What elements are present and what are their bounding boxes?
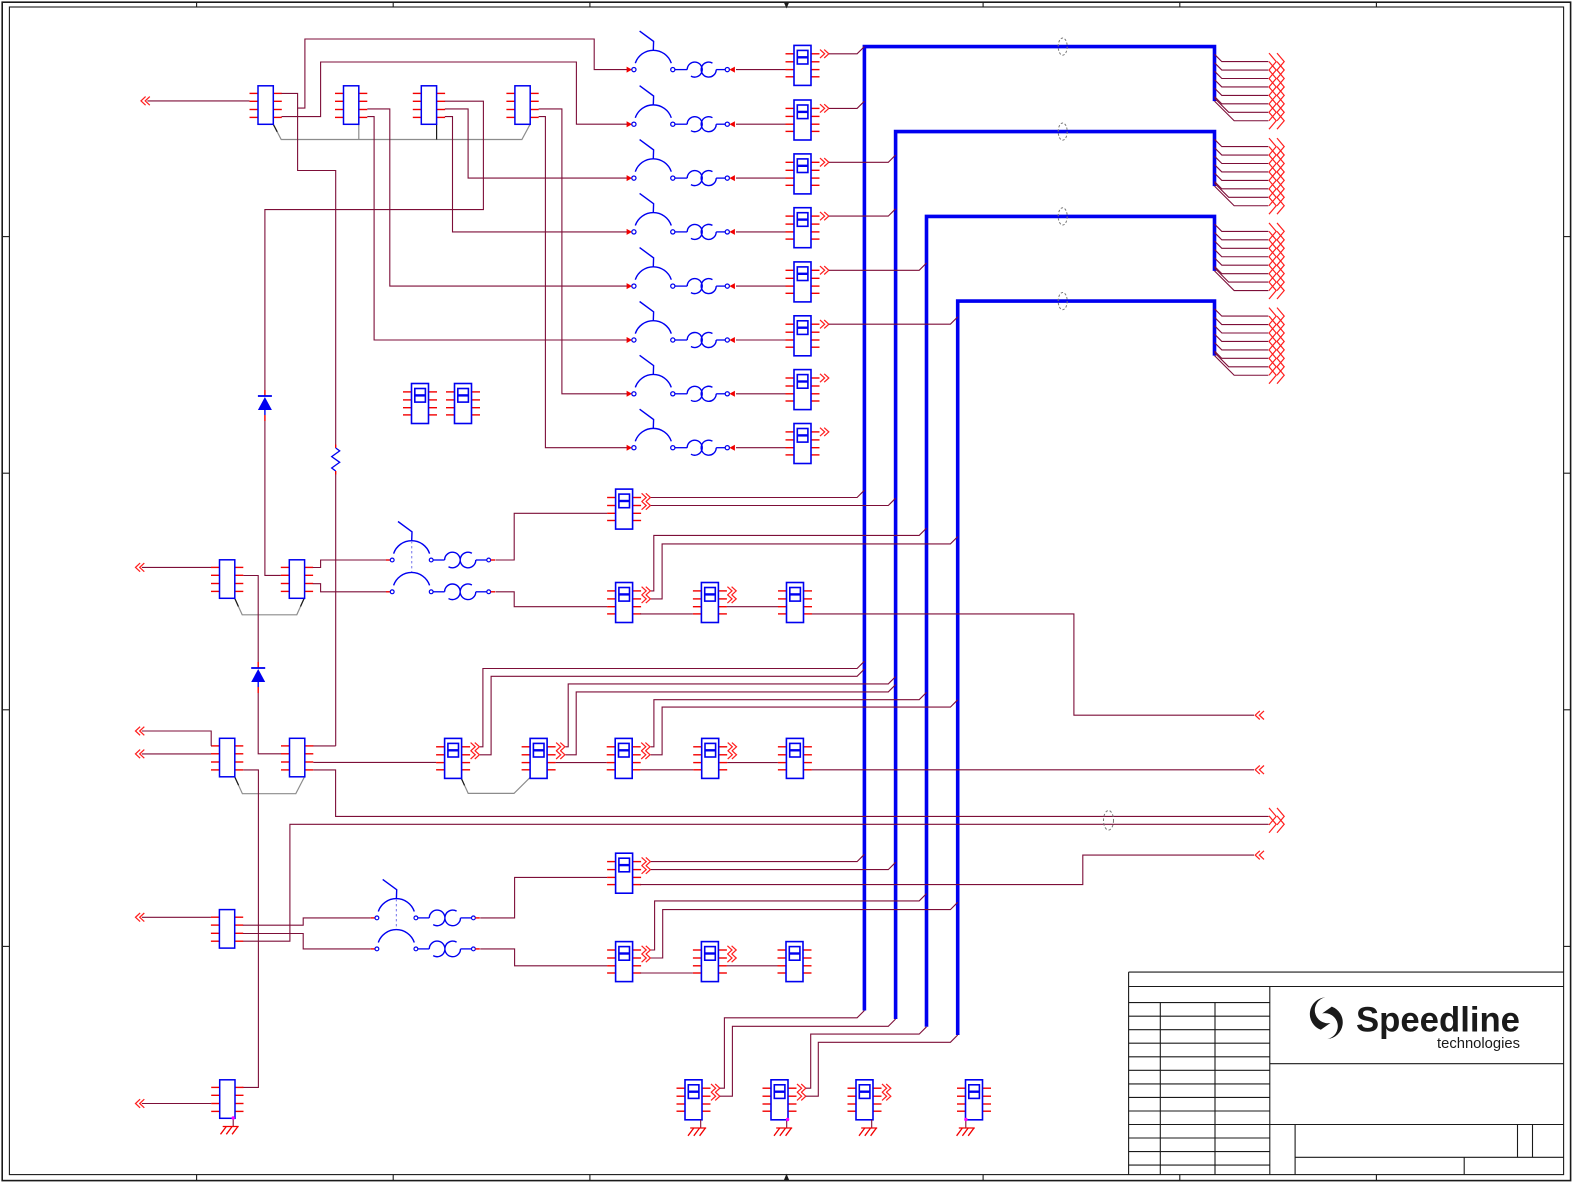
bus B2 branch wire 4 — [1215, 165, 1269, 172]
wire — [313, 745, 336, 747]
wire — [480, 877, 607, 918]
wire to bus — [480, 669, 864, 755]
connector J3 — [413, 86, 445, 125]
transformer T9a — [433, 552, 495, 568]
cable harness top — [273, 124, 530, 139]
wire — [640, 972, 693, 974]
bus B4 branch wire 1 — [1215, 309, 1269, 316]
wire node T1 — [298, 108, 336, 444]
off-page chevron K20.1 — [642, 857, 651, 865]
off-page connector to J1 — [141, 97, 150, 106]
ground G3 — [859, 1120, 877, 1136]
wire to bus — [829, 101, 864, 108]
diode D2 — [251, 662, 265, 693]
wire — [313, 584, 386, 592]
relay box K21 — [607, 942, 641, 982]
wire to bus — [829, 47, 864, 54]
bus B1 branch wire 6 — [1215, 97, 1269, 104]
wire — [335, 475, 337, 746]
relay box K19 — [778, 738, 812, 778]
circuit breaker CB3 — [627, 140, 688, 182]
wire — [496, 513, 608, 560]
power bus B4 — [958, 301, 1215, 1035]
off-page connector B1.7 — [1269, 104, 1284, 121]
wire — [313, 770, 1268, 817]
off-page connector B2.2 — [1269, 147, 1284, 164]
wire bus B1 to K24 — [720, 1011, 865, 1089]
wire — [640, 613, 693, 615]
relay box K3 — [786, 154, 820, 194]
connector J6 — [281, 560, 313, 599]
cable marker ellipse — [1104, 811, 1114, 831]
off-page connector B1.3 — [1269, 70, 1284, 87]
bus B2 branch wire 7 — [1215, 183, 1269, 197]
circuit breaker CB7 — [627, 355, 688, 397]
Speedline logo — [1310, 997, 1520, 1052]
off-page connector B1.2 — [1269, 62, 1284, 79]
off-page connector to J7.1 — [136, 727, 145, 736]
wire — [736, 339, 786, 341]
circuit breaker CB6 — [627, 302, 688, 344]
transformer T10a — [418, 910, 480, 926]
circuit breaker CB5 — [627, 248, 688, 290]
off-page connector B3.6 — [1269, 265, 1284, 282]
wire to bus — [829, 155, 896, 162]
ground G0 — [221, 1118, 239, 1134]
relay box K20 — [607, 853, 641, 893]
off-page connector B1.8 — [1269, 112, 1284, 129]
off-page chevron K16.1 — [556, 743, 565, 751]
off-page chevron K11.1 — [642, 493, 651, 501]
off-page connector B4.3 — [1269, 325, 1284, 342]
off-page chevron K6 — [820, 320, 829, 328]
off-page connector B2.4 — [1269, 164, 1284, 181]
power bus B2 — [896, 132, 1215, 1019]
off-page connector B2.8 — [1269, 197, 1284, 214]
bus B2 branch wire 8 — [1215, 186, 1269, 206]
off-page connector right 1 — [1255, 711, 1264, 720]
off-page chevron K26.1 — [882, 1084, 891, 1092]
bus B2 branch wire 3 — [1215, 156, 1269, 163]
off-page connector to J7.2 — [136, 750, 145, 759]
off-page connector B3.4 — [1269, 248, 1284, 265]
bus B1 branch wire 4 — [1215, 80, 1269, 87]
wire bus B3 to K25 — [806, 1027, 927, 1088]
wire — [736, 231, 786, 233]
off-page connector pair 1 — [1269, 808, 1284, 825]
relay box K14 — [778, 583, 812, 623]
svg-text:Speedline: Speedline — [1356, 1000, 1520, 1040]
wire — [556, 762, 607, 764]
off-page connector B2.5 — [1269, 172, 1284, 189]
bus B4 branch wire 2 — [1215, 317, 1269, 324]
transformer T9b — [433, 584, 495, 600]
off-page chevron K12.2 — [642, 595, 651, 603]
off-page connector B1.6 — [1269, 95, 1284, 112]
wire — [727, 965, 778, 967]
wire — [539, 109, 628, 394]
relay box K22 — [693, 942, 727, 982]
wire — [367, 117, 628, 340]
circuit breaker CB8 — [627, 409, 688, 451]
wire — [313, 761, 436, 763]
off-page connector to J5 — [136, 563, 145, 572]
off-page connector B1.5 — [1269, 87, 1284, 104]
wire — [142, 1103, 211, 1105]
wire — [258, 693, 281, 754]
power bus B1 — [864, 47, 1214, 1011]
bus B3 branch wire 8 — [1215, 271, 1269, 291]
off-page connector B4.6 — [1269, 350, 1284, 367]
relay box K17 — [607, 738, 641, 778]
junction dot — [786, 1118, 789, 1121]
wire — [736, 393, 786, 395]
current transformer CB2T — [687, 117, 735, 132]
breaker link — [395, 899, 397, 930]
off-page connector B2.3 — [1269, 155, 1284, 172]
wire — [496, 592, 608, 607]
bus B4 branch wire 7 — [1215, 353, 1269, 367]
off-page connector B2.7 — [1269, 189, 1284, 206]
relay box K24 — [677, 1080, 711, 1120]
wire to bus — [566, 677, 896, 747]
ground G4 — [957, 1120, 975, 1136]
wire — [367, 109, 628, 286]
relay box K1 — [786, 45, 820, 85]
wire — [736, 447, 786, 449]
wire to bus B4 — [651, 902, 958, 958]
bus B2 branch wire 2 — [1215, 148, 1269, 155]
current transformer CB4T — [687, 224, 735, 239]
off-page connector to J10 — [136, 1099, 145, 1108]
wire to bus B1 — [651, 490, 865, 497]
off-page chevron K18.1 — [728, 743, 737, 751]
bus B1 branch wire 1 — [1215, 54, 1269, 61]
wire bus B2 to K24 — [720, 1019, 896, 1096]
relay box K15 — [436, 738, 470, 778]
off-page chevron K22.1 — [727, 946, 736, 954]
off-page connector B1.1 — [1269, 53, 1284, 70]
bus B4 branch wire 5 — [1215, 343, 1269, 350]
bus B2 branch wire 1 — [1215, 139, 1269, 146]
wire to bus B3 — [651, 528, 927, 591]
bus B2 branch wire 6 — [1215, 182, 1269, 189]
off-page connector to J9 — [136, 913, 145, 922]
off-page chevron K18.2 — [728, 751, 737, 759]
wire to bus — [829, 263, 927, 270]
connector J10 — [211, 1080, 243, 1119]
wire to bus — [651, 692, 927, 746]
wire — [142, 916, 211, 918]
cable harness lower connectors — [235, 777, 305, 794]
relay box K8 — [786, 424, 820, 464]
connector J5 — [211, 560, 243, 599]
bus marker ellipse B4 — [1058, 293, 1067, 310]
circuit breaker CB2 — [627, 86, 688, 128]
off-page connector B3.1 — [1269, 223, 1284, 240]
wire — [242, 770, 259, 1088]
wire — [243, 576, 258, 663]
off-page chevron K24.1 — [711, 1084, 720, 1092]
off-page chevron K15.1 — [471, 743, 480, 751]
circuit breaker CB4 — [627, 193, 688, 235]
bus B1 branch wire 3 — [1215, 71, 1269, 78]
breaker pole CB10b — [371, 930, 418, 951]
off-page chevron K25.2 — [797, 1092, 806, 1100]
bus B3 branch wire 3 — [1215, 241, 1269, 248]
bus B3 branch wire 5 — [1215, 258, 1269, 265]
relay box K25 — [763, 1080, 797, 1120]
off-page chevron K21.2 — [642, 954, 651, 962]
wire — [736, 285, 786, 287]
off-page connector B3.5 — [1269, 257, 1284, 274]
diode D1 — [258, 390, 272, 421]
off-page connector B4.2 — [1269, 316, 1284, 333]
wire — [282, 39, 628, 108]
wire — [727, 762, 778, 764]
bus B1 branch wire 5 — [1215, 88, 1269, 95]
wire to off-page right — [812, 614, 1254, 715]
junction dot — [232, 1116, 235, 1119]
connector J8 — [281, 738, 313, 777]
breaker pole CB9b — [386, 572, 433, 593]
breaker link — [411, 541, 413, 572]
off-page connector right 2 — [1255, 766, 1264, 775]
relay box K16 — [522, 738, 556, 778]
current transformer CB1T — [687, 62, 735, 77]
wire to bus — [480, 661, 864, 747]
relay box K4 — [786, 208, 820, 248]
bus B2 branch wire 5 — [1215, 173, 1269, 180]
bus B3 branch wire 2 — [1215, 233, 1269, 240]
bus B1 branch wire 2 — [1215, 63, 1269, 70]
wire — [147, 100, 249, 102]
wire to bus — [566, 685, 896, 755]
wire to bus B4 — [651, 537, 958, 599]
wire to bus B3 — [651, 894, 927, 950]
off-page chevron K1 — [820, 50, 829, 58]
relay box K7 — [786, 370, 820, 410]
bus B3 branch wire 4 — [1215, 249, 1269, 256]
relay box K13 — [693, 583, 727, 623]
relay box K12 — [607, 583, 641, 623]
bus B1 branch wire 8 — [1215, 101, 1269, 121]
off-page chevron K20.2 — [642, 865, 651, 873]
off-page connector B2.1 — [1269, 138, 1284, 155]
bus B4 branch wire 8 — [1215, 356, 1269, 376]
relay box K18 — [693, 738, 727, 778]
bus marker ellipse B2 — [1058, 123, 1067, 140]
connector J9 — [211, 910, 243, 949]
wire — [243, 934, 371, 949]
off-page chevron K25.1 — [797, 1084, 806, 1092]
wire — [243, 918, 371, 925]
relay box K10 — [446, 384, 480, 424]
breaker pole CB10a — [371, 879, 418, 919]
wire to off-page right 2 — [812, 769, 1254, 771]
off-page chevron K26.2 — [882, 1092, 891, 1100]
wire — [142, 731, 211, 746]
off-page chevron K5 — [820, 266, 829, 274]
current transformer CB7T — [687, 386, 735, 401]
ground G1 — [688, 1120, 706, 1136]
circuit breaker CB1 — [627, 31, 688, 73]
relay box K27 — [957, 1080, 991, 1120]
connector J7 — [211, 738, 243, 777]
wire — [539, 117, 628, 448]
wire — [265, 421, 281, 575]
bus B4 branch wire 4 — [1215, 334, 1269, 341]
off-page connector B3.2 — [1269, 231, 1284, 248]
off-page connector B4.7 — [1269, 358, 1284, 375]
off-page chevron K17.2 — [641, 751, 650, 759]
cable harness mid connectors — [235, 598, 305, 615]
bus marker ellipse B1 — [1058, 38, 1067, 55]
relay box K9 — [403, 384, 437, 424]
off-page chevron K7 — [820, 374, 829, 382]
wire — [641, 769, 694, 771]
bus B3 branch wire 1 — [1215, 224, 1269, 231]
wire to bus B2 — [651, 862, 896, 869]
wire bus B4 to K25 — [806, 1035, 958, 1096]
breaker pole CB9a — [386, 522, 433, 562]
off-page connector B4.1 — [1269, 308, 1284, 325]
off-page chevron K13.1 — [727, 587, 736, 595]
wire to bus — [829, 209, 896, 216]
current transformer CB5T — [687, 279, 735, 294]
off-page connector right 3 — [1255, 851, 1264, 860]
bus B4 branch wire 3 — [1215, 326, 1269, 333]
junction dot — [964, 1118, 967, 1121]
ground G2 — [774, 1120, 792, 1136]
wire to bus B2 — [651, 498, 896, 505]
off-page chevron K24.2 — [711, 1092, 720, 1100]
bus marker ellipse B3 — [1058, 208, 1067, 225]
off-page chevron K16.2 — [556, 751, 565, 759]
off-page connector B3.8 — [1269, 282, 1284, 299]
off-page chevron K15.2 — [471, 751, 480, 759]
off-page chevron K2 — [820, 104, 829, 112]
wire — [480, 949, 607, 966]
wire — [727, 606, 778, 608]
current transformer CB8T — [687, 440, 735, 455]
power bus B3 — [927, 216, 1215, 1026]
wire — [736, 69, 786, 71]
relay box K23 — [778, 942, 812, 982]
off-page chevron K3 — [820, 158, 829, 166]
current transformer CB6T — [687, 332, 735, 347]
wire — [736, 177, 786, 179]
wire — [445, 109, 628, 178]
wire — [142, 753, 211, 755]
current transformer CB3T — [687, 171, 735, 186]
off-page connector pair 2 — [1269, 816, 1284, 833]
off-page connector B4.4 — [1269, 333, 1284, 350]
off-page connector B4.5 — [1269, 341, 1284, 358]
off-page connector B2.6 — [1269, 180, 1284, 197]
off-page chevron K13.2 — [727, 595, 736, 603]
transformer T10b — [418, 941, 480, 957]
relay box K2 — [786, 100, 820, 140]
connector J2 — [335, 86, 367, 125]
off-page chevron K11.2 — [642, 501, 651, 509]
off-page connector B3.7 — [1269, 274, 1284, 291]
off-page connector B1.4 — [1269, 79, 1284, 96]
wire to off-page right 3 — [640, 855, 1254, 885]
cable harness relay row — [461, 777, 530, 793]
resistor R1 — [332, 445, 340, 475]
off-page chevron K12.1 — [642, 587, 651, 595]
title block — [1129, 972, 1564, 1175]
off-page chevron K17.1 — [641, 743, 650, 751]
relay box K6 — [786, 316, 820, 356]
wire — [142, 566, 211, 568]
bus B4 branch wire 6 — [1215, 351, 1269, 358]
wire — [736, 123, 786, 125]
off-page connector B3.3 — [1269, 240, 1284, 257]
wire — [445, 117, 628, 232]
wire — [282, 62, 628, 124]
connector J4 — [506, 86, 538, 125]
bus B1 branch wire 7 — [1215, 98, 1269, 112]
wire — [243, 824, 1269, 941]
wire to bus — [651, 700, 958, 755]
off-page connector B4.8 — [1269, 367, 1284, 384]
wire — [313, 560, 386, 568]
off-page chevron K21.1 — [642, 946, 651, 954]
wire to bus — [829, 317, 958, 324]
relay box K11 — [607, 489, 641, 529]
relay box K5 — [786, 262, 820, 302]
off-page chevron K4 — [820, 212, 829, 220]
relay box K26 — [848, 1080, 882, 1120]
connector J1 — [250, 86, 282, 125]
off-page chevron K8 — [820, 428, 829, 436]
bus B3 branch wire 6 — [1215, 266, 1269, 273]
svg-text:technologies: technologies — [1437, 1036, 1520, 1052]
wire to bus B1 — [651, 854, 865, 861]
off-page chevron K22.2 — [727, 954, 736, 962]
bus B3 branch wire 7 — [1215, 268, 1269, 282]
wire — [265, 101, 484, 390]
